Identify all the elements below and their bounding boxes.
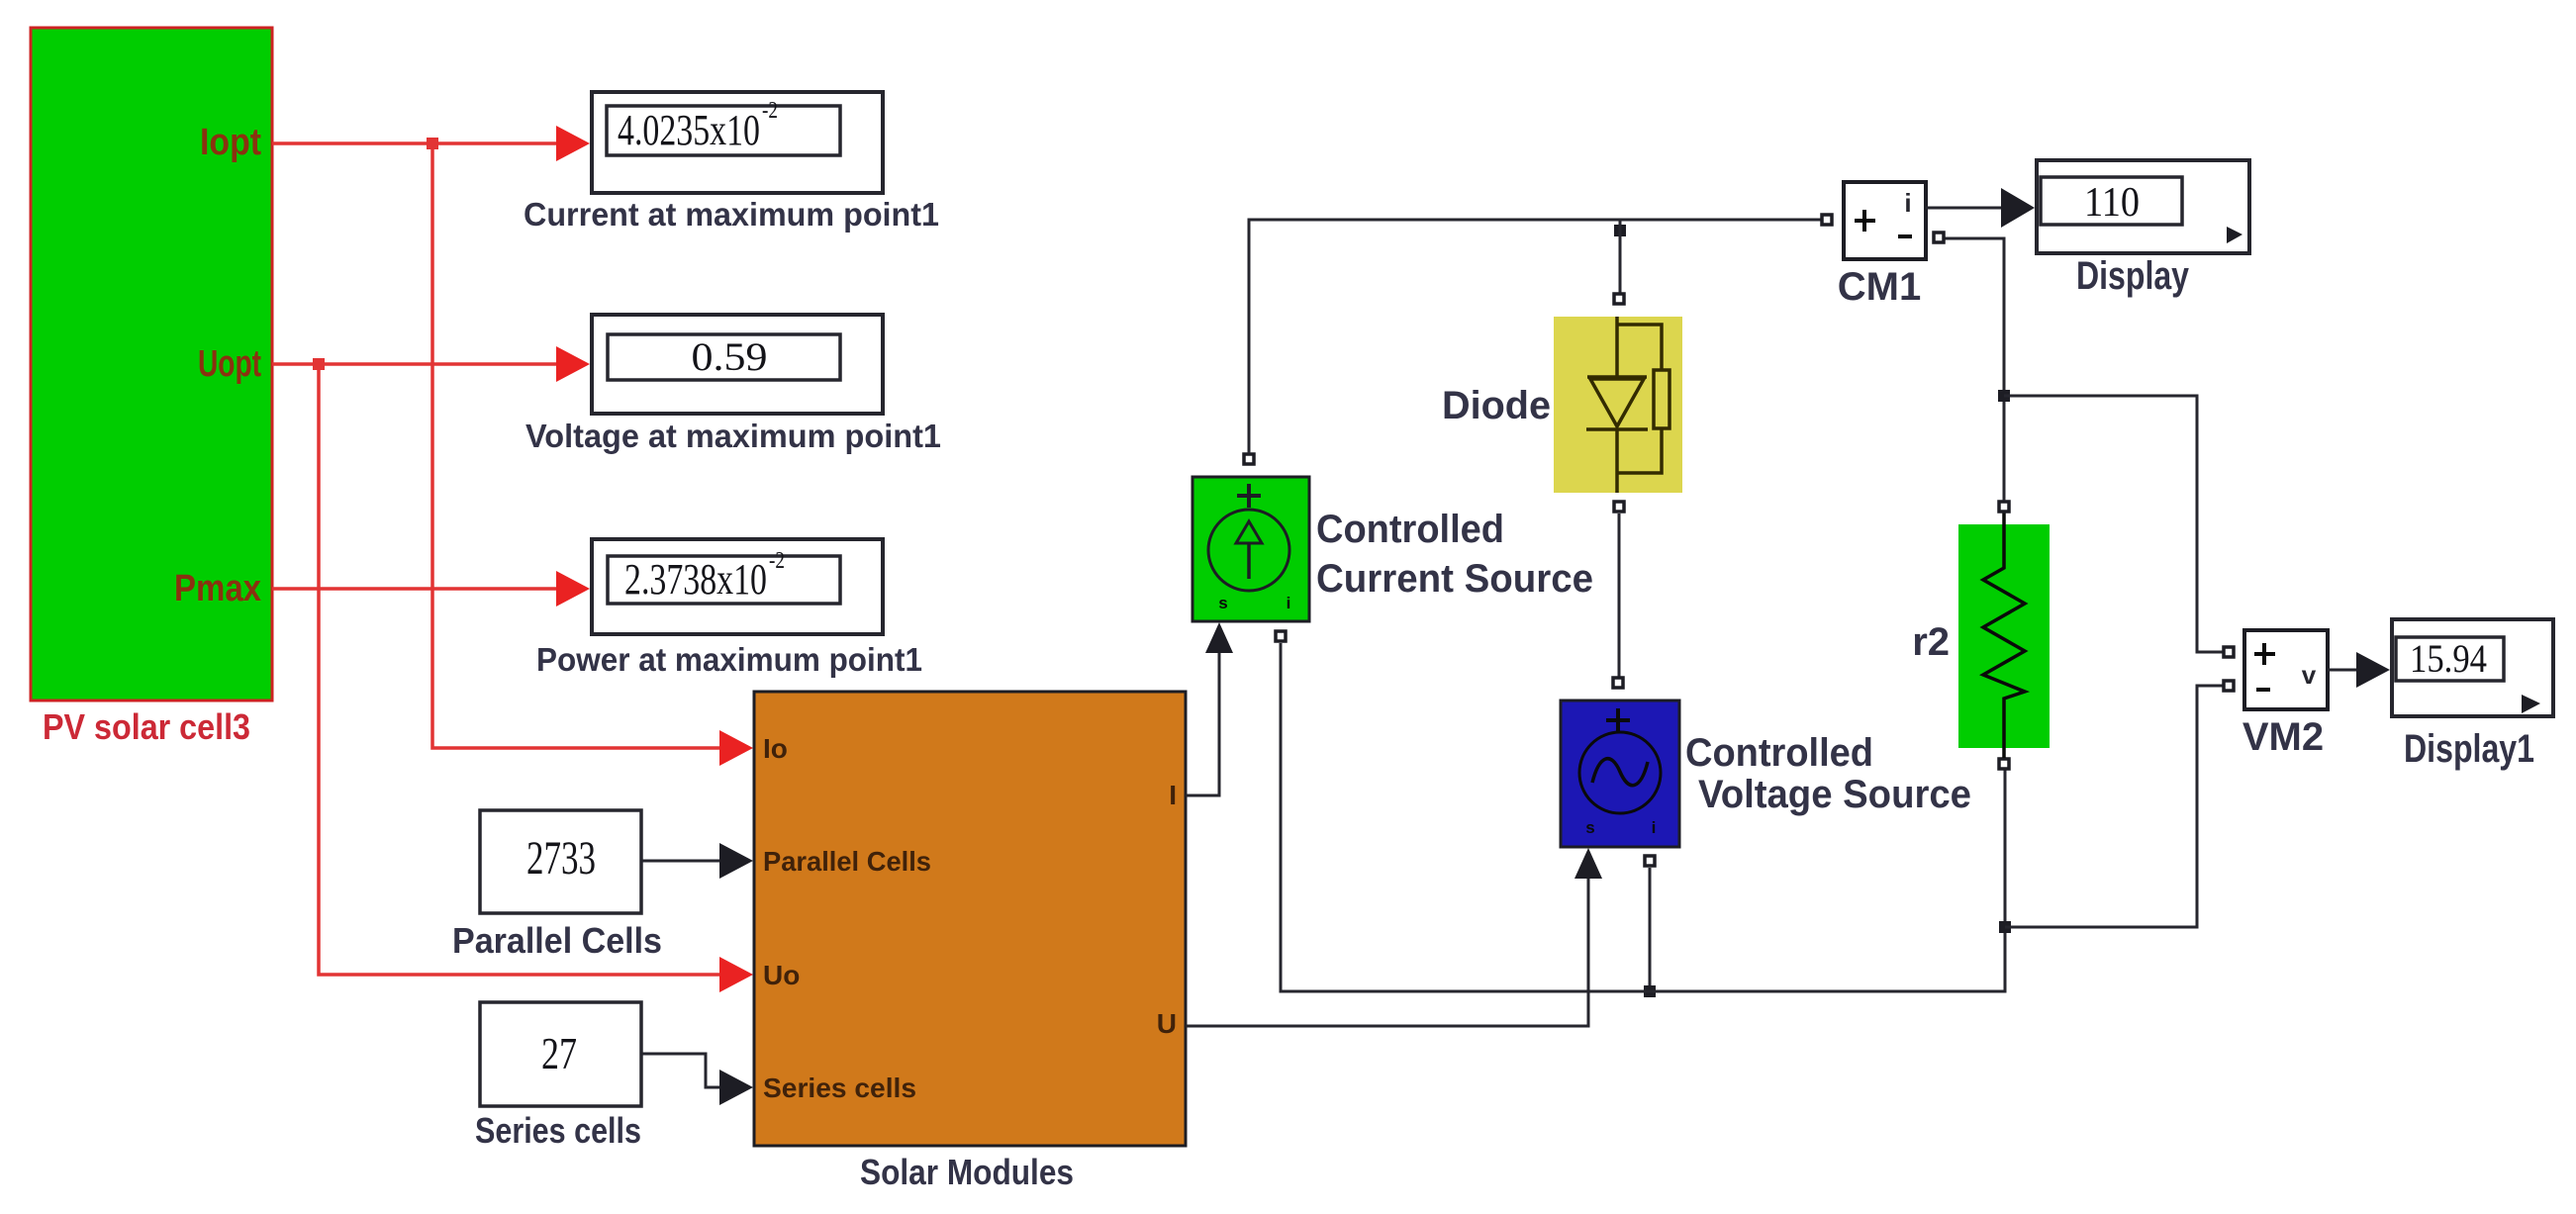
wire 27 to Series cells input — [641, 1054, 720, 1087]
red arrow into Power display — [556, 571, 590, 607]
svg-text:Current at maximum point1: Current at maximum point1 — [524, 196, 939, 233]
black arrow up into CVS bottom — [1574, 848, 1602, 879]
svg-text:Uo: Uo — [763, 960, 800, 990]
CM1 minus port — [1934, 233, 1944, 242]
Solar Modules block — [754, 692, 1186, 1146]
svg-text:r2: r2 — [1912, 620, 1950, 664]
svg-text:Series cells: Series cells — [475, 1110, 641, 1151]
svg-text:0.59: 0.59 — [692, 334, 768, 379]
svg-text:Parallel Cells: Parallel Cells — [763, 846, 931, 877]
svg-text:U: U — [1157, 1008, 1177, 1039]
display Power at maximum point1 — [592, 539, 883, 634]
svg-text:2733: 2733 — [526, 832, 596, 885]
svg-text:Pmax: Pmax — [174, 568, 261, 609]
wire 2733 to Parallel Cells input — [641, 860, 720, 863]
svg-text:-2: -2 — [769, 548, 785, 574]
CVS i port below — [1645, 856, 1655, 866]
port above CCS — [1244, 454, 1254, 464]
wire Uopt junction down to Uo input — [319, 364, 720, 975]
red arrow into Io input — [719, 730, 753, 766]
port above CVS — [1613, 678, 1623, 688]
VM2 voltage measurement block — [2244, 630, 2328, 709]
wire VM2 v output to Display1 — [2328, 669, 2358, 672]
black arrow into Parallel Cells input — [719, 843, 753, 879]
wire Iopt to Current display — [272, 141, 560, 145]
svg-text:CM1: CM1 — [1838, 265, 1921, 309]
constant block 27 — [480, 1002, 641, 1106]
red arrow into Uo input — [719, 957, 753, 992]
svg-text:Io: Io — [763, 733, 788, 764]
svg-text:v: v — [2302, 660, 2317, 690]
r2 top port — [1999, 502, 2009, 512]
display Voltage at maximum point1 — [592, 315, 883, 414]
wire Uopt to Voltage display — [272, 362, 560, 366]
red arrow into Voltage display — [556, 346, 590, 382]
svg-text:Parallel Cells: Parallel Cells — [452, 920, 662, 961]
wire U output to CVS s input — [1186, 875, 1588, 1026]
diode top port — [1614, 294, 1624, 304]
svg-text:Solar Modules: Solar Modules — [860, 1152, 1074, 1192]
svg-text:-2: -2 — [762, 98, 778, 124]
svg-text:15.94: 15.94 — [2410, 636, 2487, 681]
svg-text:2.3738x10: 2.3738x10 — [624, 555, 767, 604]
constant block 2733 — [480, 810, 641, 913]
junction on Iopt wire — [427, 138, 438, 149]
r2 bottom port — [1999, 759, 2009, 769]
wire junction to VM2 minus — [2005, 686, 2223, 927]
Diode block — [1554, 317, 1682, 493]
diode bottom port — [1614, 502, 1624, 512]
Display block showing 110 — [2037, 160, 2249, 253]
svg-text:Voltage at maximum point1: Voltage at maximum point1 — [525, 418, 941, 454]
wire Iopt junction down to Io input — [432, 143, 720, 748]
junction on r2 top wire — [1998, 390, 2010, 402]
svg-text:s: s — [1585, 818, 1594, 837]
junction on bottom rail at CVS branch — [1644, 985, 1656, 997]
CCS i port below — [1276, 631, 1286, 641]
svg-text:27: 27 — [541, 1028, 577, 1078]
Controlled Voltage Source block — [1561, 700, 1679, 847]
svg-text:Uopt: Uopt — [198, 343, 261, 385]
svg-text:Current Source: Current Source — [1316, 557, 1593, 601]
svg-text:Iopt: Iopt — [200, 122, 261, 163]
wire diode bottom to CVS top port — [1618, 514, 1621, 677]
svg-text:Power at maximum point1: Power at maximum point1 — [536, 641, 922, 678]
Display1 block showing 15.94 — [2392, 619, 2553, 716]
svg-text:Series cells: Series cells — [763, 1073, 916, 1103]
svg-text:i: i — [1652, 818, 1657, 837]
black arrow up into CCS bottom — [1205, 622, 1233, 653]
svg-text:i: i — [1904, 188, 1911, 218]
wire CVS i port down to bottom rail — [1649, 868, 1652, 991]
svg-text:s: s — [1218, 594, 1227, 612]
wire CM1 minus down to r2 top port — [1945, 238, 2004, 501]
svg-text:VM2: VM2 — [2242, 715, 2324, 759]
VM2 plus port — [2224, 647, 2234, 657]
black arrow into Display — [2001, 188, 2035, 228]
svg-text:4.0235x10: 4.0235x10 — [618, 106, 760, 154]
Controlled Current Source block — [1193, 477, 1309, 621]
wire junction to VM2 plus — [2004, 396, 2223, 652]
display Current at maximum point1 — [592, 92, 883, 193]
PV solar cell3 block — [31, 28, 272, 700]
svg-text:I: I — [1169, 780, 1177, 810]
VM2 minus port — [2224, 681, 2234, 691]
svg-text:Display1: Display1 — [2404, 727, 2534, 771]
svg-text:Voltage Source: Voltage Source — [1698, 773, 1971, 816]
svg-text:PV solar cell3: PV solar cell3 — [43, 706, 250, 747]
wire Pmax to Power display — [272, 587, 560, 591]
junction on Uopt wire — [313, 358, 325, 370]
junction below r2 — [1999, 921, 2011, 933]
svg-text:i: i — [1287, 594, 1291, 612]
svg-text:110: 110 — [2084, 180, 2140, 226]
svg-text:Display: Display — [2076, 254, 2190, 298]
CM1 input port — [1822, 215, 1832, 225]
wire junction down to diode top port — [1619, 220, 1622, 297]
CM1 current measurement block — [1844, 182, 1926, 259]
black arrow into Display1 — [2356, 652, 2390, 688]
bottom rail wire from CCS i port to below r2 — [1281, 643, 2005, 991]
wire CM1 i output to Display — [1926, 207, 2003, 210]
svg-text:Diode: Diode — [1442, 384, 1551, 427]
wire I output up to Controlled Current Source — [1186, 643, 1219, 795]
red arrow into Current display — [556, 126, 590, 161]
svg-text:Controlled: Controlled — [1685, 731, 1873, 775]
svg-text:Controlled: Controlled — [1316, 508, 1504, 551]
junction on top rail at diode branch — [1614, 225, 1626, 236]
black arrow into Series cells input — [719, 1070, 753, 1105]
wire CCS top port up and right to CM1 — [1249, 220, 1821, 453]
r2 resistor block — [1958, 513, 2050, 758]
